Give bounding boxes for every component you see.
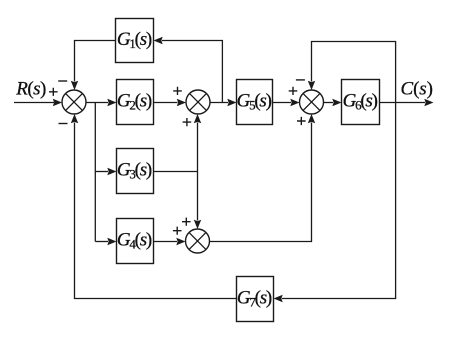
svg-text:G4(s): G4(s) [117, 229, 152, 251]
wire G2 output to summer S2 [154, 99, 187, 106]
wire G5 output to summer S3 [273, 99, 300, 106]
wire G1 output to S1 top input [71, 41, 116, 91]
plus sign at S3 bottom input [297, 117, 306, 125]
svg-text:C(s): C(s) [401, 79, 433, 100]
summing junction S4 [186, 229, 210, 253]
minus sign at S1 top input [58, 80, 67, 82]
wire G3 tee up to S2 bottom input [194, 114, 201, 172]
svg-text:G6(s): G6(s) [343, 90, 378, 112]
plus sign at S4 top input [182, 218, 191, 226]
block G3 [117, 149, 154, 194]
wire branch to G4 [95, 238, 116, 245]
wire G3 output tee [154, 171, 198, 173]
block G5 [237, 80, 273, 125]
wire G4 output to summer S4 [154, 238, 186, 245]
wire S4 output to S3 bottom input [210, 114, 316, 242]
minus sign at S3 top input [296, 79, 305, 81]
wire G7 output to S1 bottom input [71, 114, 237, 299]
svg-text:G5(s): G5(s) [237, 90, 272, 112]
block G7 [237, 277, 274, 322]
wire tap up from S2 output to G1 input [154, 37, 223, 103]
plus sign at S2 left input [173, 87, 182, 95]
wire G3 tee down to S4 top input [194, 172, 201, 230]
plus sign at S2 bottom input [183, 118, 192, 126]
summing junction S2 [186, 90, 210, 114]
plus sign at S1 left input [49, 88, 58, 96]
svg-text:G3(s): G3(s) [117, 159, 152, 181]
wire S3 output to G6 [324, 99, 342, 106]
block G2 [117, 80, 154, 125]
wire tap up from output node to S3 top input [308, 42, 396, 103]
wire S2 output to G5 [210, 99, 237, 106]
wire G6 output to C(s) [380, 99, 434, 106]
plus sign at S4 left input [173, 227, 182, 235]
minus sign at S1 bottom input [59, 123, 68, 125]
wire R(s) input to summer S1 [14, 99, 62, 106]
wire tap down from output node to G7 input [274, 103, 396, 303]
wire branch down from S1 output node [94, 103, 96, 242]
svg-text:G2(s): G2(s) [117, 90, 152, 112]
summing junction S3 [300, 90, 324, 114]
wire S1 output to G2 [86, 99, 117, 106]
block G1 [116, 19, 154, 63]
block G6 [342, 80, 380, 125]
block G4 [117, 219, 154, 264]
summing junction S1 [62, 90, 86, 114]
svg-text:R(s): R(s) [15, 78, 46, 99]
svg-text:G1(s): G1(s) [117, 29, 152, 51]
svg-text:G7(s): G7(s) [237, 287, 272, 309]
wire branch to G3 [95, 168, 116, 175]
plus sign at S3 left input [289, 87, 298, 95]
